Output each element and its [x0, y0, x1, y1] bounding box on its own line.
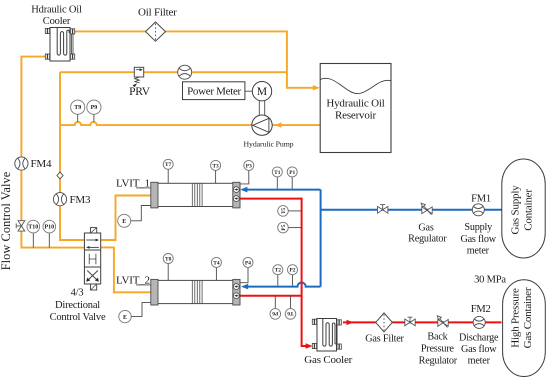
svg-text:P4: P4: [245, 260, 251, 266]
svg-text:Gas Filter: Gas Filter: [365, 334, 404, 345]
wire motor shaft: [259, 101, 264, 116]
svg-text:Gas Supply: Gas Supply: [510, 185, 522, 235]
svg-text:P10: P10: [44, 225, 54, 231]
FM2 flow meter: [473, 316, 485, 328]
wire P10 stub: [48, 233, 50, 248]
sensor T6: [285, 309, 296, 320]
svg-text:T9: T9: [74, 105, 81, 111]
wire LVIT_1 leader: [136, 187, 151, 189]
svg-text:P6: P6: [272, 310, 278, 316]
4/3 directional control valve: [84, 228, 100, 290]
svg-text:Gas flow: Gas flow: [460, 234, 496, 245]
svg-text:PRV: PRV: [129, 86, 151, 98]
wire T8 stub: [167, 264, 169, 281]
arrow into pump from reservoir: [275, 122, 282, 127]
svg-text:T8: T8: [165, 256, 172, 262]
power meter box: [183, 82, 245, 100]
svg-text:T1: T1: [274, 170, 281, 176]
svg-text:FM1: FM1: [471, 193, 491, 204]
svg-text:Control Valve: Control Valve: [50, 312, 106, 323]
svg-text:P3: P3: [246, 163, 252, 169]
hydraulic pump P: [252, 115, 272, 135]
wire T1 stub: [276, 177, 278, 189]
wire T4 stub: [215, 267, 217, 280]
sensor T9: [71, 100, 85, 114]
svg-text:Hydraulic Oil: Hydraulic Oil: [326, 98, 384, 110]
svg-text:T4: T4: [213, 260, 220, 266]
hydraulic oil cooler HX1: [45, 28, 74, 62]
svg-text:T3: T3: [212, 163, 219, 169]
wire P4 stub: [223, 267, 248, 282]
sensor T2: [273, 265, 283, 275]
svg-text:Flow Control Valve: Flow Control Valve: [0, 171, 13, 270]
svg-text:Regulator: Regulator: [419, 356, 458, 367]
arrow into cylinder1: [240, 187, 247, 193]
wire T3 stub: [215, 170, 217, 183]
svg-text:Discharge: Discharge: [459, 333, 499, 344]
wire: gas cooler out to high pressure container: [343, 321, 502, 323]
wire E1 probe: [131, 206, 164, 221]
svg-text:Back: Back: [427, 331, 448, 342]
sensor P10: [43, 220, 56, 233]
svg-text:P5: P5: [281, 224, 287, 230]
sensor T8: [163, 254, 173, 264]
svg-text:4/3: 4/3: [71, 287, 84, 298]
PRV relief valve: [133, 67, 144, 87]
hydraulic oil reservoir tank: [320, 64, 391, 153]
wire: PRV-line vertical x60 down through FM3 to valve upper port: [60, 72, 84, 240]
cylinder LVIT_2: [151, 279, 240, 305]
svg-text:High Pressure: High Pressure: [510, 288, 522, 348]
svg-text:Oil Filter: Oil Filter: [138, 7, 177, 19]
FM4 flow meter: [15, 157, 28, 170]
svg-text:P1: P1: [289, 170, 295, 176]
sensor E1: [118, 214, 131, 227]
gas filter F2: [376, 313, 393, 332]
svg-text:FM2: FM2: [471, 304, 491, 315]
svg-text:T7: T7: [165, 162, 172, 168]
svg-text:Pressure: Pressure: [421, 344, 455, 355]
wire: cylinder2 discharge to vertical: [240, 295, 302, 297]
svg-text:FM3: FM3: [70, 194, 91, 206]
wire: pump suction line y125 with T9 P9 hops: [60, 122, 320, 125]
wire: suction into cylinder 1: [245, 189, 321, 191]
sensor T4: [211, 257, 221, 267]
cylinder LVIT_1: [151, 182, 240, 208]
svg-text:Directional: Directional: [55, 300, 100, 311]
wire: valve lower-right port down to LVIT_2 left: [101, 247, 151, 292]
top cell arrows: [86, 239, 96, 241]
svg-text:LVIT_1: LVIT_1: [116, 178, 150, 190]
svg-text:P9: P9: [91, 105, 98, 111]
svg-text:Hdraulic Oil: Hdraulic Oil: [31, 5, 82, 16]
wire: cylinder1 discharge to vertical, down to gas cooler: [240, 199, 309, 346]
bottom cell X arrows: [87, 271, 98, 281]
svg-text:T2: T2: [275, 268, 282, 274]
svg-text:M: M: [257, 86, 267, 98]
arrow into gas cooler: [306, 343, 313, 348]
svg-text:T6: T6: [287, 310, 294, 316]
wire P6 stub: [274, 296, 276, 309]
wire T7 stub: [167, 169, 169, 183]
FM3 flow meter: [53, 193, 66, 206]
svg-text:Supply: Supply: [464, 222, 493, 233]
svg-text:E: E: [122, 219, 126, 225]
sensor T10: [27, 220, 40, 233]
wire: valve upper-right port up to LVIT_1 left: [101, 196, 151, 241]
wire: cooler bottom-left to FM4/FCV vertical and T10-P10 line to valve: [21, 57, 84, 248]
motor M: [252, 82, 271, 101]
svg-text:Regulator: Regulator: [408, 234, 447, 245]
wire P5 stub: [288, 227, 301, 229]
sensor P3: [244, 160, 254, 170]
wire P2 stub: [292, 275, 294, 286]
discharge shut-off valve V2: [405, 317, 415, 326]
sensor T7: [163, 159, 173, 169]
wire P1 stub: [291, 177, 293, 189]
wire: suction into cylinder 2 with hop over red: [246, 283, 321, 287]
svg-text:meter: meter: [467, 245, 490, 256]
svg-text:LVIT_2: LVIT_2: [116, 275, 150, 287]
sensor T3: [211, 160, 221, 170]
wire T2 stub: [277, 275, 279, 286]
gas shut-off valve V1 on supply line: [378, 205, 388, 214]
wire powermeter-motor: [245, 90, 252, 92]
sensor P6: [270, 309, 281, 320]
svg-text:Reservoir: Reservoir: [335, 109, 377, 121]
flow control valve (on vertical line, stem left): [16, 221, 25, 231]
wire P9 stub: [93, 114, 95, 122]
svg-text:FM4: FM4: [31, 158, 52, 170]
svg-text:Container: Container: [523, 189, 535, 231]
wire T10 stub: [32, 233, 34, 248]
oil filter F1: [146, 22, 166, 41]
svg-text:Gas flow: Gas flow: [461, 344, 497, 355]
gas supply container capsule: [502, 159, 545, 258]
svg-text:Cooler: Cooler: [43, 16, 71, 27]
arrow into reservoir: [313, 85, 320, 90]
wire: PRV relief line y72: [60, 71, 287, 73]
sensor P1: [287, 167, 297, 177]
FM1 flow meter: [472, 204, 484, 216]
gas regulator: [421, 203, 432, 215]
svg-text:E: E: [123, 315, 127, 321]
wire T5 stub: [288, 210, 301, 212]
gas cooler HX2: [312, 319, 341, 352]
wire: gas supply main line y210: [321, 209, 502, 211]
sensor P4: [243, 257, 253, 267]
svg-text:Gas Container: Gas Container: [522, 287, 534, 348]
wire: cooler top-right through oil filter, down, into reservoir: [75, 31, 314, 87]
wire LVIT_2 leader: [136, 284, 151, 286]
svg-text:30 MPa: 30 MPa: [474, 274, 506, 285]
wire: blue vertical x320.6: [320, 190, 322, 287]
wire P3 stub: [223, 170, 249, 184]
svg-text:T5: T5: [281, 207, 287, 214]
sensor P5: [278, 222, 289, 233]
svg-text:T10: T10: [28, 225, 38, 231]
svg-text:Gas: Gas: [418, 222, 433, 233]
wire T6 stub: [290, 296, 292, 309]
svg-text:P2: P2: [290, 268, 296, 274]
check diamond on FM3 line: [57, 172, 63, 179]
svg-text:Gas Cooler: Gas Cooler: [304, 354, 352, 366]
arrow into cylinder2: [241, 284, 248, 290]
middle cell H: [89, 254, 96, 264]
sensor T1: [272, 167, 282, 177]
sensor E2: [119, 310, 131, 322]
svg-text:meter: meter: [468, 356, 491, 367]
sensor T5: [278, 206, 289, 217]
back pressure regulator: [437, 316, 448, 328]
svg-text:Power Meter: Power Meter: [187, 86, 241, 98]
sensor P2: [288, 265, 298, 275]
arrow after gas cooler: [347, 320, 354, 325]
svg-text:Hydarulic Pump: Hydarulic Pump: [244, 140, 294, 149]
high pressure gas container capsule: [503, 280, 546, 377]
sensor P9: [87, 100, 101, 114]
wire T9 stub: [77, 114, 79, 122]
flow indicator (unlabeled) on PRV line: [178, 65, 192, 79]
wire E2 probe: [131, 303, 164, 317]
